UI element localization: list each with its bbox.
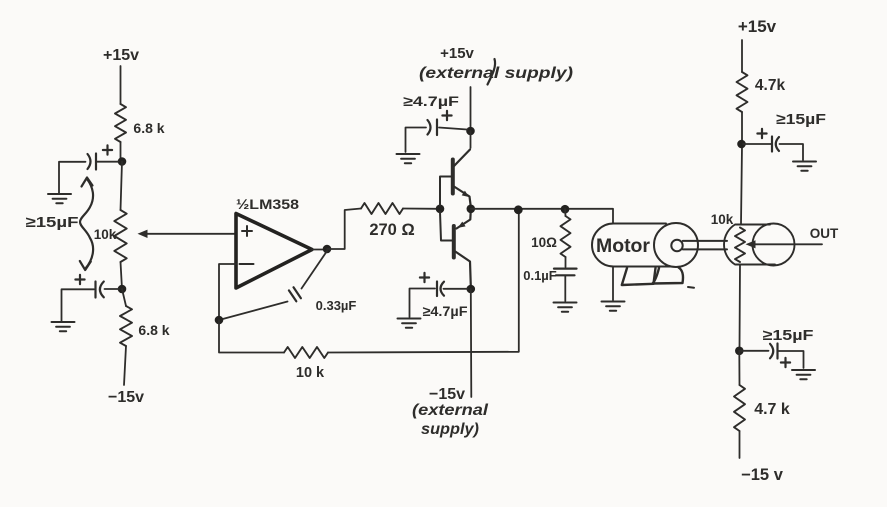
potentiometer R7 10k body [724,225,775,265]
svg-text:½LM358: ½LM358 [236,197,300,212]
wire (R8 to node) [741,112,743,141]
op-amp U1 1/2 LM358 [236,214,312,289]
svg-text:10 k: 10 k [296,365,325,381]
resistor R1 6.8k [115,104,126,142]
wire (output up to 270R) [327,209,361,250]
resistor R6 10 ohm [561,216,571,257]
wire (right rail top) [741,40,743,72]
wire (left rail top) [120,66,122,104]
node (+15v ext rail) [466,127,475,136]
wire (node to Q1 collector) [470,131,472,148]
resistor R8 4.7k [737,72,748,112]
wire (main output run) [471,209,613,224]
resistor R4 270 ohm [361,203,403,214]
svg-text:−15v: −15v [429,386,465,403]
motor M1 body [592,224,671,267]
capacitor C7 &#8805;15uF (right top) [743,143,771,145]
wire (feedback bottom run to riser) [328,210,519,353]
wire (node to R9) [738,351,740,385]
polarity + of C1 [103,145,112,154]
capacitor C1 &#8805;15uF (top, electrolytic) [95,154,97,170]
wire (base tee to Q1 and Q2) [440,177,452,241]
wire (-15v ext rail down) [470,289,473,397]
wire (node B to R3) [122,289,126,306]
svg-text:(external supply): (external supply) [419,65,573,82]
wire (C1 to ground) [59,162,86,193]
ground (right top) [793,162,816,171]
svg-text:supply): supply) [421,421,479,438]
potentiometer R7 10k element [735,228,745,263]
svg-text:≥15µF: ≥15µF [26,214,79,231]
svg-text:6.8 k: 6.8 k [133,120,164,136]
stray pen mark [488,59,496,85]
wire (C5 to ground) [564,276,566,302]
wire (R3 to -15v) [124,346,126,385]
pot wiper arrow and OUT line [753,243,822,245]
svg-text:+15v: +15v [738,17,777,36]
wire (+15v ext down to node) [470,87,472,128]
wire (right rail to pot) [741,146,742,224]
wire (R6 to C5) [565,257,567,267]
wire (tap to R6) [564,209,567,216]
transistor Q2 PNP (bottom) [452,226,456,258]
svg-text:−15v: −15v [108,389,144,406]
svg-text:4.7 k: 4.7 k [754,401,790,418]
ground (snubber) [554,303,577,312]
wire (motor to ground) [612,267,614,301]
svg-text:270 Ω: 270 Ω [369,221,414,239]
node (-15v ext rail) [467,285,476,294]
wire (C4 to ground) [406,128,427,153]
resistor R3 6.8k [120,306,132,346]
ground (under C6) [398,319,421,328]
svg-text:0.1µF: 0.1µF [523,268,557,283]
resistor R5 10k (feedback) [284,347,328,358]
capacitor C3 0.33uF (feedback, across diagonal) [302,251,328,289]
svg-text:≥15µF: ≥15µF [776,111,826,128]
potentiometer R2 10k (left divider) [114,210,126,262]
op-amp + input marking [242,226,252,236]
wire (node A to pot) [121,162,123,211]
wire (pot bottom down) [739,265,742,349]
svg-text:6.8 k: 6.8 k [138,322,169,338]
svg-text:(external: (external [412,402,489,419]
wire (inverting input to feedback node) [219,264,236,317]
transistor Q1 NPN (top) [451,160,455,194]
svg-text:+15v: +15v [440,45,474,62]
polarity + of C7 [757,129,766,138]
capacitor C6 &#8805;4.7uF (negative rail bypass) [444,288,468,290]
polarity + of C4 [442,111,451,120]
svg-text:0.33µF: 0.33µF [316,298,357,313]
wire (R9 to -15v) [739,431,741,458]
node A (divider top junction) [118,157,127,166]
capacitor C8 &#8805;15uF (right bottom) [739,350,768,352]
wire (op-amp output) [312,249,327,251]
svg-text:≥15µF: ≥15µF [763,327,814,344]
node (right rail bottom) [735,347,744,356]
wire (C6 to ground) [410,289,436,318]
node (base junction) [436,205,445,214]
alternative-connection curved arrow (cap to either end of pot) [80,179,93,269]
node (op-amp output) [323,245,332,254]
svg-text:10k: 10k [94,227,117,242]
wire (C2 to ground) [62,289,95,321]
svg-text:−15 v: −15 v [741,466,784,484]
wire (C8 to ground) [779,351,804,368]
wire (R1 to node A) [120,142,122,162]
ground (left top) [48,194,71,203]
ground (under C4) [397,154,420,163]
mechanical shaft link (motor to pot) [683,240,727,242]
wire (pot wiper arrow to op-amp + input) [147,233,236,235]
node (feedback junction at inverting input) [215,316,224,325]
svg-text:Motor: Motor [596,236,651,257]
wire (node A to capacitor C1) [97,161,119,163]
op-amp - input marking [240,263,254,265]
capacitor C5 0.1uF [554,268,577,270]
svg-text:10k: 10k [711,212,734,227]
resistor R9 4.7k [734,385,745,431]
node B (divider bottom junction) [118,285,127,294]
node (right rail top) [737,140,746,149]
wire (C7 to ground) [780,144,804,160]
capacitor C4 &#8805;4.7uF (positive rail bypass) [439,128,467,130]
wire (pot bottom to node B) [121,262,123,289]
capacitor C2 &#8805;15uF (bottom, electrolytic) [105,288,120,290]
svg-text:10Ω: 10Ω [531,235,557,250]
ground (motor) [602,302,625,311]
ground (right bottom) [792,370,815,379]
svg-text:4.7k: 4.7k [755,77,786,94]
polarity + of C6 [420,273,429,282]
ground (left bottom) [52,322,75,331]
node (emitter output junction) [467,205,476,214]
wire (R4 to base junction) [403,208,437,210]
motor mounting bracket [622,268,656,285]
polarity + of C2 [75,275,84,284]
wire (feedback bottom run, left) [219,320,284,353]
node (feedback tap) [514,205,523,214]
svg-text:OUT: OUT [810,226,839,241]
node (snubber tap) [561,205,570,214]
svg-text:+15v: +15v [103,47,139,64]
svg-text:≥4.7µF: ≥4.7µF [423,303,468,319]
svg-text:≥4.7µF: ≥4.7µF [403,93,460,109]
polarity + of C8 [781,358,790,367]
